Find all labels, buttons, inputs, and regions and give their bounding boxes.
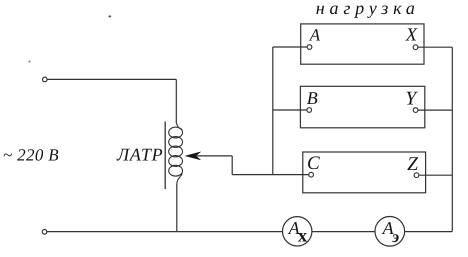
coil L1 (autotransformer winding) — [169, 122, 183, 185]
box B-Y (load phase 2) — [300, 86, 424, 128]
ammeter A_x — [283, 217, 312, 247]
terminal C — [309, 172, 314, 177]
terminal A — [307, 45, 312, 50]
wire X to right bus — [418, 46, 452, 48]
svg-text:э: э — [391, 227, 399, 246]
wire tap horizontal — [197, 155, 233, 157]
terminal B — [307, 108, 312, 113]
wire Z to right bus — [419, 174, 452, 176]
left bus vertical — [272, 47, 274, 175]
terminal X — [413, 45, 418, 50]
core bar — [164, 122, 166, 190]
svg-text:Z: Z — [407, 154, 418, 175]
bottom wire — [47, 231, 452, 233]
svg-text:B: B — [307, 88, 318, 108]
terminal Y — [413, 108, 418, 113]
terminal T2 — [42, 230, 47, 235]
wire top horizontal — [47, 78, 176, 80]
terminal T1 — [43, 77, 48, 82]
ammeter A_e — [375, 217, 405, 247]
svg-text:A: A — [309, 25, 321, 44]
box A-X (load phase 1) — [301, 24, 424, 64]
svg-text:х: х — [298, 226, 308, 246]
terminal Z — [414, 173, 419, 178]
tap arrow — [185, 152, 200, 160]
wire stub to B — [273, 109, 308, 111]
speckle dot 2 — [29, 61, 31, 63]
wire to C terminal — [232, 174, 310, 176]
svg-text:X: X — [405, 25, 418, 45]
wire Y to right bus — [418, 109, 452, 111]
svg-text:C: C — [307, 153, 320, 174]
svg-text:нагрузка: нагрузка — [316, 0, 420, 18]
wire tap vertical — [231, 156, 233, 175]
svg-text:ЛАТР: ЛАТР — [116, 144, 163, 164]
right bus vertical — [451, 47, 453, 231]
wire top vertical to coil — [175, 79, 177, 123]
box C-Z (load phase 3) — [303, 152, 426, 193]
wire stub to A — [273, 46, 308, 48]
wire coil bottom vertical — [176, 184, 178, 232]
svg-text:~ 220 В: ~ 220 В — [3, 146, 59, 165]
speckle dot 1 — [108, 15, 111, 17]
